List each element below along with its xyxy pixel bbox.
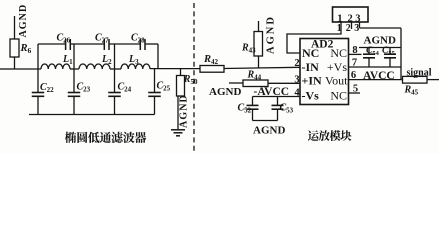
op-amp U1 AD2 box bbox=[300, 39, 349, 105]
capacitor C25 bbox=[154, 69, 156, 93]
pin8 stub bbox=[349, 53, 362, 55]
wire AGND rail bbox=[359, 47, 401, 49]
svg-text:AVCC: AVCC bbox=[363, 70, 395, 82]
svg-text:AGND: AGND bbox=[18, 4, 29, 38]
resistor R6 bbox=[10, 39, 19, 57]
wire pin1 NC to connector pin1 bbox=[287, 22, 341, 53]
svg-text:Vout: Vout bbox=[325, 74, 348, 88]
inductor L1 bbox=[41, 64, 70, 69]
capacitor C26 bbox=[65, 39, 67, 50]
resistor R50 bbox=[180, 69, 182, 76]
label: elliptic low-pass filter bbox=[65, 132, 76, 143]
capacitor C54 bbox=[368, 48, 370, 55]
svg-text:R42: R42 bbox=[203, 54, 219, 66]
wire R42 to pin2 bbox=[224, 67, 300, 68]
wire R45 to right edge bbox=[427, 79, 439, 81]
svg-text:NC: NC bbox=[330, 46, 347, 60]
svg-text:AGND: AGND bbox=[209, 86, 241, 98]
connector pin 3 stub and wire to right rail bbox=[359, 22, 361, 28]
svg-text:C22: C22 bbox=[40, 82, 54, 94]
svg-text:-AVCC: -AVCC bbox=[254, 86, 290, 98]
svg-text:R6: R6 bbox=[20, 43, 32, 55]
wire after L3 bbox=[150, 68, 200, 70]
resistor R42 bbox=[200, 66, 224, 73]
wire +Vs rail pin7 to caps bbox=[349, 66, 402, 68]
ground AGND net label (rotated) top-left bbox=[14, 16, 16, 39]
capacitor C55 bbox=[389, 48, 391, 55]
svg-text:C28: C28 bbox=[131, 33, 145, 45]
svg-text:AGND: AGND bbox=[253, 124, 285, 136]
svg-text:3: 3 bbox=[294, 74, 299, 85]
wire top branch seg2 bbox=[71, 43, 104, 45]
svg-text:R44: R44 bbox=[247, 70, 262, 82]
wire R50 to ground bbox=[177, 96, 179, 129]
svg-text:C25: C25 bbox=[157, 81, 171, 93]
svg-text:R45: R45 bbox=[404, 85, 419, 97]
svg-text:3: 3 bbox=[354, 23, 359, 34]
svg-text:R50: R50 bbox=[183, 74, 198, 86]
wire C52 C53 bottom rail bbox=[253, 120, 278, 122]
wire between L2 L3 bbox=[110, 68, 121, 70]
capacitor C52 bbox=[252, 97, 254, 106]
capacitor C24 bbox=[114, 69, 116, 93]
svg-text:C27: C27 bbox=[95, 33, 109, 45]
svg-text:NC: NC bbox=[330, 88, 347, 102]
svg-text:C23: C23 bbox=[77, 82, 91, 94]
wire between L1 L2 bbox=[70, 68, 79, 70]
svg-text:AGND: AGND bbox=[364, 34, 396, 46]
pin5 stub bbox=[349, 92, 361, 94]
svg-text:AGND: AGND bbox=[266, 15, 277, 54]
wire right vertical rail bbox=[400, 28, 402, 80]
dashed separator line bbox=[193, 3, 195, 151]
wire top branch seg4 bbox=[146, 43, 158, 45]
svg-text:NC: NC bbox=[302, 46, 319, 60]
wire bottom rail bbox=[29, 114, 155, 116]
svg-text:C24: C24 bbox=[118, 82, 132, 94]
capacitor C22 bbox=[37, 69, 39, 93]
svg-text:C26: C26 bbox=[57, 33, 71, 45]
wire: input line from left edge bbox=[0, 68, 15, 70]
connector pin 2 stub bbox=[351, 22, 353, 29]
svg-text:+Vs: +Vs bbox=[327, 60, 347, 74]
wire top branch seg1 bbox=[38, 43, 65, 45]
svg-text:C52: C52 bbox=[238, 103, 252, 115]
wire top branch seg3 bbox=[110, 43, 140, 45]
svg-text:-Vs: -Vs bbox=[302, 88, 320, 102]
svg-text:L2: L2 bbox=[101, 54, 112, 66]
svg-text:2: 2 bbox=[346, 23, 351, 34]
inductor L2 bbox=[79, 64, 110, 69]
svg-text:2: 2 bbox=[294, 58, 299, 69]
svg-text:C53: C53 bbox=[280, 103, 294, 115]
node B vertical to top branch at x74 bbox=[73, 44, 75, 69]
connector J1 box bbox=[333, 7, 369, 22]
svg-text:1: 1 bbox=[337, 23, 342, 34]
capacitor C27 bbox=[103, 39, 105, 50]
svg-text:4: 4 bbox=[294, 88, 300, 99]
svg-text:L3: L3 bbox=[128, 54, 139, 66]
node D vertical to top branch at x158 bbox=[157, 44, 159, 69]
capacitor C28 bbox=[139, 39, 141, 50]
wire Vout to R45 bbox=[349, 79, 403, 81]
svg-text:L1: L1 bbox=[62, 54, 73, 66]
svg-text:+IN: +IN bbox=[302, 74, 323, 88]
label: op-amp module bbox=[308, 130, 319, 141]
svg-text:-IN: -IN bbox=[302, 60, 320, 74]
node C vertical to top branch at x114.5 bbox=[114, 44, 116, 69]
capacitor C53 bbox=[277, 97, 279, 106]
wire main line segment node1 bbox=[15, 68, 42, 70]
resistor R43 bbox=[258, 56, 260, 68]
inductor L3 bbox=[121, 64, 150, 69]
resistor R45 bbox=[403, 76, 428, 83]
wire R6 to main line bbox=[14, 57, 16, 69]
resistor R44 bbox=[229, 82, 243, 84]
wire pin4 to -AVCC bbox=[253, 96, 301, 98]
ground symbol bbox=[171, 129, 185, 131]
svg-text:AGND: AGND bbox=[179, 94, 190, 128]
node A vertical to top branch at x38 bbox=[37, 44, 39, 69]
capacitor C23 bbox=[73, 69, 75, 93]
